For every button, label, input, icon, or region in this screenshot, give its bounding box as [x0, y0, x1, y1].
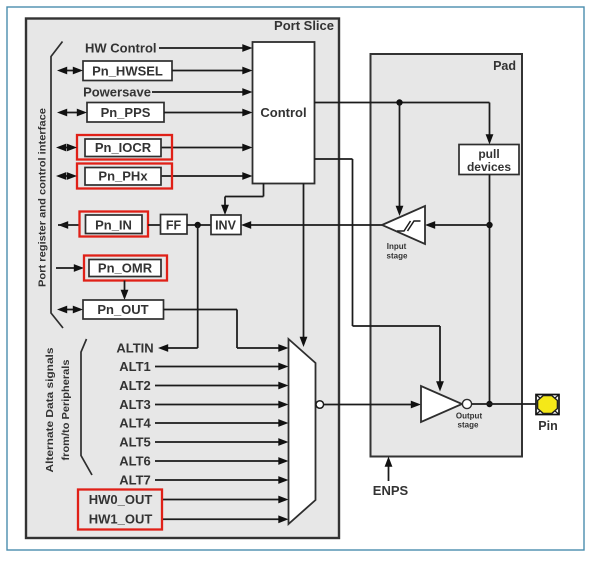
svg-text:Powersave: Powersave: [83, 85, 151, 100]
wire Powersave to Control: [152, 88, 253, 96]
bidir arrow Pn_HWSEL: [57, 67, 83, 75]
input stage triangle: [382, 206, 425, 244]
register box Pn_PPS: [87, 103, 164, 123]
label HW Control: [85, 41, 156, 56]
wire ALT2 to mux: [155, 382, 289, 390]
wire ALT1 to mux: [155, 363, 289, 371]
svg-text:Port register and control inte: Port register and control interface: [37, 108, 49, 287]
wire ALT5 to mux: [155, 438, 289, 446]
wire ALT4 to mux: [155, 419, 289, 427]
register box Pn_OUT: [83, 300, 164, 319]
svg-text:ALT5: ALT5: [119, 435, 151, 450]
junction dot FF/INV: [195, 222, 201, 228]
wire pad net vertical: [489, 175, 491, 405]
svg-text:Pn_OMR: Pn_OMR: [98, 261, 153, 276]
label Port register and control interface (rotated): [37, 108, 49, 287]
svg-text:Pn_OUT: Pn_OUT: [97, 302, 148, 317]
wire Pn_HWSEL to Control: [172, 67, 253, 75]
ENPS arrow: [385, 457, 393, 482]
svg-text:from/to Peripherals: from/to Peripherals: [61, 359, 72, 460]
bidir arrow Pn_IOCR: [56, 144, 77, 152]
label Output stage: [456, 412, 483, 430]
label from/to Peripherals (rotated line 2): [61, 359, 72, 460]
output stage triangle: [421, 386, 462, 422]
wire branch to input stage enable: [396, 103, 404, 217]
wire Pn_IOCR to Control: [161, 144, 253, 152]
label ALT6: [119, 454, 151, 469]
svg-text:HW1_OUT: HW1_OUT: [89, 512, 153, 527]
svg-text:ALT6: ALT6: [119, 454, 151, 469]
wire HW Control to Control: [159, 44, 253, 52]
wire pad net to input stage: [425, 221, 490, 229]
wire ALT3 to mux: [155, 401, 289, 409]
label Pad: [493, 59, 516, 73]
svg-text:ALT1: ALT1: [119, 359, 151, 374]
svg-text:Alternate Data signals: Alternate Data signals: [45, 347, 56, 473]
red highlight Pn_PHx: [77, 164, 172, 189]
arrow into Pn_OMR: [56, 264, 84, 272]
wire ALT7 to mux: [155, 476, 289, 484]
svg-text:devices: devices: [467, 160, 511, 174]
wire junction to ALTIN: [158, 225, 198, 352]
svg-text:ALT2: ALT2: [119, 378, 151, 393]
svg-text:Pn_PHx: Pn_PHx: [98, 169, 148, 184]
label ALT4: [119, 416, 151, 431]
label Input stage: [387, 242, 408, 261]
svg-text:Pn_PPS: Pn_PPS: [101, 105, 151, 120]
brace: alternate data group: [81, 339, 92, 475]
bidir arrow Pn_OUT: [57, 306, 83, 314]
register box Pn_HWSEL: [83, 61, 172, 81]
inverter box INV: [211, 215, 241, 235]
wire output-stage enable: [315, 159, 444, 392]
wire HW1_OUT to mux: [162, 515, 289, 523]
mux output bubble: [316, 401, 324, 409]
register box Pn_IN: [86, 215, 143, 234]
arrow Pn_IN out (left): [58, 221, 80, 229]
svg-text:ALT7: ALT7: [119, 473, 151, 488]
svg-text:ALTIN: ALTIN: [116, 341, 153, 356]
label ALT7: [119, 473, 151, 488]
register box Pn_IOCR: [85, 139, 161, 157]
label Powersave: [83, 85, 151, 100]
label ALT2: [119, 378, 151, 393]
svg-text:ALT3: ALT3: [119, 397, 151, 412]
wire ALT6 to mux: [155, 457, 289, 465]
wire Pn_PHx to Control: [161, 172, 253, 180]
svg-text:Pad: Pad: [493, 59, 516, 73]
svg-text:Control: Control: [260, 105, 306, 120]
label Alternate Data signals (rotated line 1): [45, 347, 56, 473]
label ALT5: [119, 435, 151, 450]
brace: port register group: [51, 42, 63, 329]
junction dot input stage: [486, 222, 492, 228]
svg-text:ALT4: ALT4: [119, 416, 151, 431]
svg-text:HW0_OUT: HW0_OUT: [89, 492, 153, 507]
svg-text:Output: Output: [456, 412, 483, 421]
svg-text:FF: FF: [166, 219, 182, 233]
svg-text:pull: pull: [478, 147, 499, 161]
svg-text:stage: stage: [458, 421, 479, 430]
svg-text:Pn_IOCR: Pn_IOCR: [95, 140, 152, 155]
label HW0_OUT: [89, 492, 153, 507]
junction dot control/pad: [396, 99, 402, 105]
wire FF to INV with junction: [187, 224, 211, 226]
svg-text:Pn_IN: Pn_IN: [95, 218, 132, 233]
label ALTIN: [116, 341, 153, 356]
bidir arrow Pn_PPS: [57, 109, 87, 117]
register box Pn_OMR: [89, 260, 161, 277]
wire Control to pad net (pull devices): [315, 103, 494, 145]
wire HW0_OUT to mux: [162, 496, 289, 504]
svg-text:ENPS: ENPS: [373, 483, 409, 498]
svg-text:Port Slice: Port Slice: [274, 18, 334, 33]
Port Slice container box: [26, 19, 339, 539]
wire output to pin: [472, 403, 536, 405]
svg-text:INV: INV: [215, 219, 237, 233]
wire Pn_OMR to Pn_OUT: [121, 281, 129, 301]
hysteresis symbol: [397, 221, 421, 231]
svg-text:Pin: Pin: [538, 419, 557, 433]
wire mux to output stage: [324, 401, 421, 409]
flipflop box FF: [161, 215, 188, 235]
pin pad symbol: [536, 395, 559, 415]
wire Pn_OUT to mux input 1: [164, 310, 289, 352]
mux select wire from Control: [300, 184, 308, 348]
label ENPS: [373, 483, 409, 498]
control block: [253, 42, 315, 184]
label ALT3: [119, 397, 151, 412]
svg-text:stage: stage: [387, 252, 408, 261]
pull devices box: [459, 145, 519, 175]
svg-text:Pn_HWSEL: Pn_HWSEL: [92, 64, 163, 79]
label HW1_OUT: [89, 512, 153, 527]
wire Pn_IN to FF: [148, 224, 161, 226]
red highlight HW0_OUT/HW1_OUT: [78, 490, 162, 530]
red highlight Pn_IN: [80, 212, 149, 237]
wire input stage to INV: [241, 221, 382, 229]
register box Pn_PHx: [85, 168, 161, 186]
svg-text:HW Control: HW Control: [85, 41, 156, 56]
svg-text:Input: Input: [387, 242, 407, 251]
label Pin: [538, 419, 557, 433]
wire Control to INV (enable): [221, 184, 263, 216]
Pad container box: [371, 54, 523, 457]
multiplexer: [289, 339, 316, 524]
junction dot output net: [486, 401, 492, 407]
red highlight Pn_OMR: [84, 256, 167, 281]
red highlight Pn_IOCR: [77, 135, 172, 160]
wire Pn_PPS to Control: [164, 109, 253, 117]
label Port Slice: [274, 18, 334, 33]
bidir arrow Pn_PHx: [56, 172, 77, 180]
label ALT1: [119, 359, 151, 374]
output stage bubble: [462, 399, 471, 408]
